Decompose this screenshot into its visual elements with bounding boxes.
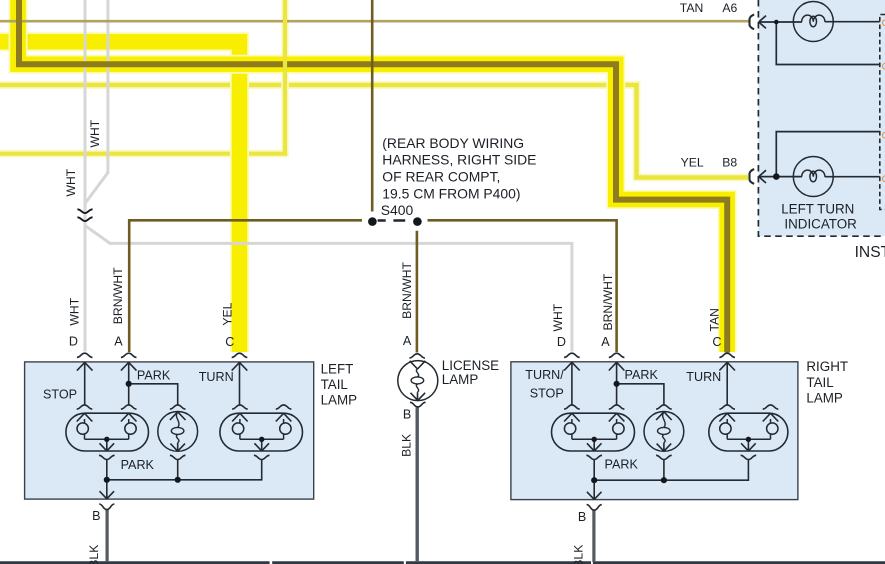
- svg-text:TURN: TURN: [199, 370, 234, 384]
- wire BRN/WHT: S400 bus right to right tail lamp A: [428, 220, 617, 352]
- svg-text:B: B: [403, 408, 411, 422]
- svg-text:WHT: WHT: [88, 119, 102, 147]
- right turn bulb socket arcs: [719, 405, 735, 409]
- wire BLK left tail lamp to ground bus: [105, 510, 108, 563]
- right turn/stop bulb filaments: [572, 419, 617, 439]
- branch wire from node to cluster connector: [776, 22, 880, 65]
- svg-text:STOP: STOP: [530, 386, 564, 400]
- wire YEL thin: left edge to connector B8: [0, 85, 748, 178]
- svg-text:B8: B8: [722, 156, 737, 170]
- right turn bulb lower socket arc: [741, 455, 757, 459]
- svg-text:HARNESS, RIGHT SIDE: HARNESS, RIGHT SIDE: [382, 152, 536, 168]
- right park bulb bottom arrow: [657, 443, 672, 452]
- license lamp top arrow: [410, 361, 426, 369]
- left turn bulb outline: [220, 413, 303, 451]
- left lamp terminal C socket arc: [232, 353, 248, 357]
- left stop/tail bulb lower socket arc: [99, 455, 115, 459]
- left lamp terminal D socket arc: [77, 353, 93, 357]
- indicator bulb 2 outline: [793, 157, 833, 197]
- left lamp terminal C pin arrow: [232, 362, 248, 370]
- right turn/stop bulb lower socket arc: [586, 455, 602, 459]
- right park bulb top arrow: [656, 412, 672, 420]
- connector A6 male arrow: [759, 16, 766, 29]
- left stop/tail bulb filament dot: [104, 437, 109, 442]
- right turn/stop bulb exit arrow: [587, 439, 602, 451]
- svg-text:YEL: YEL: [221, 302, 235, 325]
- connector B8 female half: [750, 169, 755, 184]
- left park bulb outline: [158, 412, 198, 452]
- left lamp terminal A pin arrow: [121, 362, 137, 370]
- indicator bulb 1 outline: [793, 2, 833, 42]
- svg-text:A: A: [114, 334, 123, 348]
- svg-text:PARK: PARK: [605, 458, 639, 472]
- left tail lamp box: [25, 362, 314, 499]
- right turn bulb filaments: [727, 419, 770, 439]
- svg-text:LAMP: LAMP: [806, 391, 843, 406]
- wire BLK right tail lamp to ground bus: [592, 510, 595, 563]
- right lamp junction dot A/park: [614, 381, 620, 387]
- connector B8 male arrow: [759, 170, 766, 183]
- left park bulb filament: [176, 412, 179, 443]
- left lamp wire C to turn bulb: [239, 362, 241, 404]
- wire WHT vertical to left tail lamp D: [84, 0, 87, 352]
- wire B8 to indicator bulb 2: [759, 176, 802, 178]
- wire bulb 2 to cluster connector: [825, 176, 880, 178]
- license lamp bulb outline: [398, 361, 438, 401]
- node B8 junction dot: [773, 173, 780, 180]
- right lamp terminal C socket arc: [719, 353, 735, 357]
- right park bulb socket arc: [656, 405, 672, 409]
- left lamp terminal A socket arc: [121, 353, 137, 357]
- left lamp park branch wire: [129, 384, 178, 405]
- license lamp bottom arrow: [411, 392, 426, 400]
- right lamp park branch wire: [617, 384, 664, 405]
- svg-text:LAMP: LAMP: [321, 392, 358, 407]
- right turn/stop bulb pin arrows: [564, 413, 580, 421]
- svg-text:S400: S400: [381, 202, 414, 218]
- wire BLK license lamp to ground bus: [416, 408, 419, 563]
- right lamp wire D to bulb: [571, 362, 573, 404]
- svg-text:PARK: PARK: [121, 458, 155, 472]
- right lamp internal ground bus: [594, 460, 748, 480]
- svg-text:BLK: BLK: [399, 434, 413, 457]
- svg-text:B: B: [578, 510, 586, 524]
- inline connector on WHT wire: [77, 209, 92, 213]
- right turn bulb outline: [709, 413, 788, 451]
- license lamp B socket arc: [410, 402, 426, 407]
- svg-text:YEL: YEL: [681, 156, 704, 170]
- svg-text:BLK: BLK: [87, 545, 101, 564]
- right turn bulb pin arrows: [719, 413, 735, 421]
- left park bulb socket arc: [170, 405, 186, 409]
- right turn/stop bulb filament dot: [592, 437, 597, 442]
- cluster inner connector dashed box: [880, 15, 885, 210]
- instrument cluster dashed border: [758, 0, 885, 236]
- left stop/tail bulb exit arrow: [100, 439, 115, 451]
- svg-text:BRN/WHT: BRN/WHT: [400, 261, 414, 318]
- svg-text:A: A: [601, 335, 610, 349]
- wire TAN to connector A6: [0, 20, 749, 23]
- left stop/tail bulb filaments: [85, 419, 129, 439]
- svg-text:BRN/WHT: BRN/WHT: [601, 273, 615, 330]
- right tail lamp box: [511, 362, 798, 500]
- wire bulb 1 to cluster connector: [825, 21, 880, 23]
- wire WHT branch across to right tail lamp D: [85, 226, 572, 352]
- right lamp terminal A pin arrow: [609, 362, 625, 370]
- svg-text:WHT: WHT: [68, 297, 82, 325]
- right lamp exit B wire and arrow: [587, 480, 602, 499]
- wire YEL thin vertical to top edge: [283, 0, 287, 156]
- right lamp wire C to turn bulb: [726, 362, 728, 404]
- svg-text:RIGHT: RIGHT: [806, 359, 848, 374]
- right lamp ground bus dots: [591, 477, 597, 483]
- right turn/stop bulb socket arcs: [564, 405, 580, 409]
- svg-text:BLK: BLK: [571, 545, 585, 564]
- license lamp A socket arc: [409, 354, 425, 358]
- indicator bulb 1 filament: [802, 15, 825, 22]
- left park bulb lower socket arc: [170, 455, 186, 459]
- right turn bulb filament dot: [746, 437, 751, 442]
- right park bulb outline: [644, 412, 684, 452]
- svg-text:BRN/WHT: BRN/WHT: [111, 267, 125, 324]
- splice S400 dot right: [413, 217, 422, 226]
- left lamp ground bus dots: [104, 477, 110, 483]
- svg-text:(REAR BODY WIRING: (REAR BODY WIRING: [382, 135, 524, 151]
- svg-text:B: B: [92, 509, 100, 523]
- svg-text:STOP: STOP: [43, 387, 77, 401]
- connector A6 female half: [750, 14, 755, 29]
- left lamp wire A to bulb: [128, 362, 130, 404]
- left turn bulb filaments: [240, 419, 284, 439]
- wire TAN highlight underlay: top edge down, across, to right tail lamp TURN C: [18, 0, 727, 352]
- right park bulb lower socket arc: [656, 455, 672, 459]
- left lamp junction dot A/park: [126, 381, 132, 387]
- wire YEL highlighted thick: left edge to left tail lamp TURN C: [0, 42, 240, 352]
- svg-text:A: A: [403, 334, 412, 348]
- license lamp filament: [416, 369, 418, 392]
- svg-text:A6: A6: [722, 1, 737, 15]
- left turn bulb filament dot: [259, 437, 264, 442]
- svg-text:TAIL: TAIL: [321, 377, 348, 392]
- wire A6 to indicator bulb 1: [759, 21, 802, 23]
- svg-text:TAN: TAN: [680, 1, 703, 15]
- left stop/tail bulb outline: [66, 413, 149, 451]
- left turn bulb socket arcs: [232, 405, 248, 409]
- svg-text:D: D: [557, 335, 566, 349]
- left lamp internal ground bus: [107, 460, 262, 480]
- wire WHT short from top merging: [85, 0, 108, 204]
- node A6 junction dot: [774, 20, 779, 25]
- svg-text:PARK: PARK: [137, 369, 171, 383]
- indicator bulb 2 filament: [802, 170, 825, 177]
- left park bulb bottom arrow: [170, 443, 185, 452]
- wire BRN/WHT: splice to license lamp A: [416, 231, 419, 353]
- left lamp exit B wire and arrow: [100, 480, 115, 499]
- left lamp wire D to stop bulb: [84, 362, 86, 404]
- left park bulb top arrow: [170, 412, 186, 420]
- right turn/stop bulb outline: [552, 413, 635, 451]
- svg-text:C: C: [712, 335, 721, 349]
- wire BRN/WHT vertical from top to splice S400: [371, 0, 374, 212]
- splice S400 dashed segment: [378, 219, 406, 221]
- left turn bulb pin arrows: [232, 413, 248, 421]
- wire YEL thin: left edge up to top edge (halo and horizontal): [0, 0, 285, 154]
- left lamp B socket arc below box: [99, 504, 114, 510]
- svg-text:LEFT: LEFT: [321, 362, 354, 377]
- svg-text:LICENSE: LICENSE: [442, 358, 499, 373]
- wire BRN/WHT: S400 bus left to left tail lamp A: [129, 220, 362, 352]
- svg-text:C: C: [225, 335, 234, 349]
- right lamp wire A to bulb: [616, 362, 618, 404]
- right park bulb filament: [663, 412, 666, 443]
- left turn bulb lower socket arc: [254, 455, 270, 459]
- svg-text:INST: INST: [855, 244, 885, 261]
- right lamp terminal D pin arrow: [564, 362, 580, 370]
- svg-text:TAIL: TAIL: [806, 375, 833, 390]
- svg-text:INDICATOR: INDICATOR: [784, 217, 857, 232]
- left lamp terminal D pin arrow: [77, 362, 93, 370]
- svg-text:TAN: TAN: [707, 308, 721, 331]
- instrument cluster dashed box fill: [758, 0, 885, 236]
- svg-text:LAMP: LAMP: [442, 372, 479, 387]
- svg-text:19.5 CM FROM P400): 19.5 CM FROM P400): [382, 185, 520, 201]
- right turn bulb exit arrow: [741, 439, 756, 451]
- svg-text:WHT: WHT: [551, 303, 565, 331]
- svg-text:LEFT TURN: LEFT TURN: [781, 202, 854, 217]
- left turn bulb exit arrow: [254, 439, 269, 451]
- svg-text:TURN/: TURN/: [525, 368, 564, 382]
- right lamp terminal D socket arc: [564, 353, 580, 357]
- left stop/tail bulb pin arrows: [77, 413, 93, 421]
- right lamp B socket arc below box: [587, 505, 602, 511]
- svg-text:TURN: TURN: [686, 370, 721, 384]
- svg-text:PARK: PARK: [625, 368, 659, 382]
- svg-text:WHT: WHT: [64, 168, 78, 196]
- wire TAN core of highlighted path: [19, 0, 727, 353]
- svg-text:D: D: [69, 334, 78, 348]
- svg-text:OF REAR COMPT,: OF REAR COMPT,: [382, 168, 500, 184]
- left stop/tail bulb socket arcs: [77, 405, 93, 409]
- right lamp terminal A socket arc: [609, 353, 625, 357]
- right lamp terminal C pin arrow: [719, 362, 735, 370]
- branch wire from node B8 to cluster connector: [776, 132, 880, 177]
- splice S400 dot left: [368, 217, 377, 226]
- ground bus bottom: [0, 561, 885, 564]
